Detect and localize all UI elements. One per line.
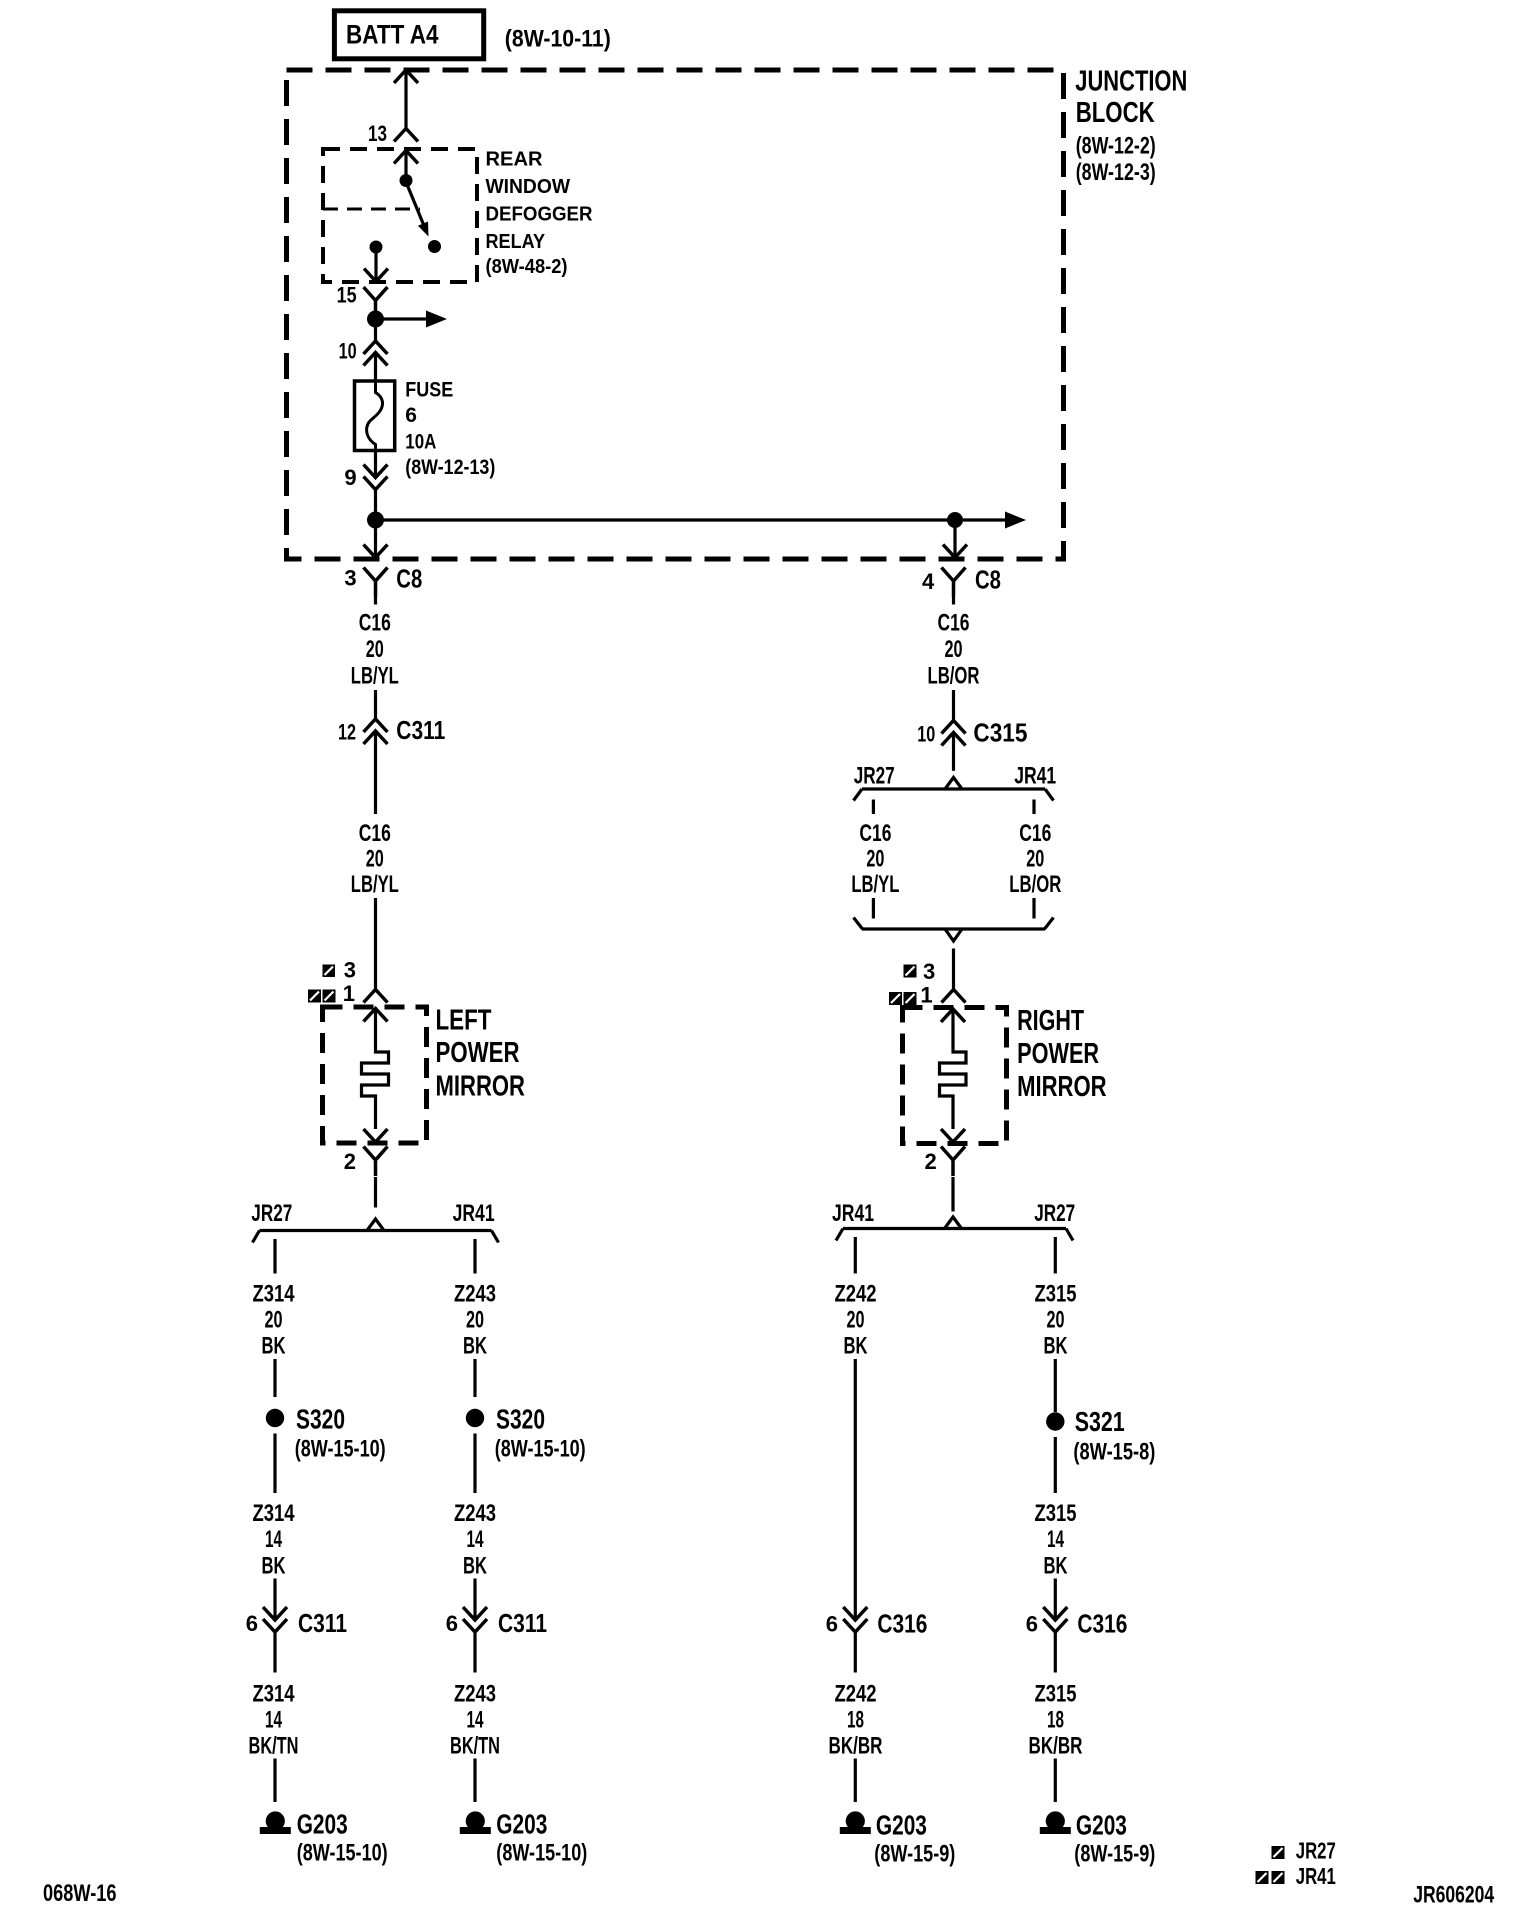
svg-text:LB/YL: LB/YL bbox=[351, 662, 399, 689]
svg-text:Z242: Z242 bbox=[835, 1281, 877, 1308]
svg-text:2: 2 bbox=[925, 1149, 937, 1174]
svg-text:BK: BK bbox=[463, 1552, 487, 1579]
svg-text:LB/YL: LB/YL bbox=[851, 871, 899, 898]
svg-text:1: 1 bbox=[920, 983, 932, 1008]
svg-text:BK: BK bbox=[463, 1333, 487, 1360]
svg-text:(8W-12-13): (8W-12-13) bbox=[405, 456, 495, 479]
svg-text:POWER: POWER bbox=[436, 1037, 520, 1069]
svg-text:POWER: POWER bbox=[1017, 1038, 1099, 1070]
svg-text:G203: G203 bbox=[297, 1809, 348, 1840]
svg-text:BK/TN: BK/TN bbox=[249, 1733, 299, 1760]
svg-text:20: 20 bbox=[945, 636, 963, 663]
svg-text:BK: BK bbox=[262, 1333, 286, 1360]
svg-text:JR41: JR41 bbox=[832, 1200, 874, 1227]
svg-text:JUNCTION: JUNCTION bbox=[1075, 66, 1187, 98]
svg-text:C311: C311 bbox=[498, 1608, 547, 1638]
svg-text:20: 20 bbox=[1026, 846, 1044, 873]
svg-text:BK/BR: BK/BR bbox=[829, 1733, 883, 1760]
svg-text:LEFT: LEFT bbox=[436, 1005, 492, 1037]
svg-text:BK: BK bbox=[1044, 1333, 1068, 1360]
svg-text:(8W-15-9): (8W-15-9) bbox=[874, 1841, 955, 1868]
svg-text:JR27: JR27 bbox=[1034, 1200, 1075, 1227]
svg-text:S321: S321 bbox=[1075, 1406, 1125, 1437]
svg-text:BK: BK bbox=[844, 1333, 868, 1360]
svg-text:C8: C8 bbox=[396, 564, 422, 594]
svg-text:Z243: Z243 bbox=[454, 1281, 496, 1308]
svg-text:20: 20 bbox=[847, 1307, 865, 1334]
svg-text:RIGHT: RIGHT bbox=[1017, 1005, 1084, 1037]
svg-text:18: 18 bbox=[847, 1707, 864, 1734]
svg-text:G203: G203 bbox=[496, 1809, 547, 1840]
svg-text:BLOCK: BLOCK bbox=[1076, 97, 1155, 129]
svg-text:(8W-15-9): (8W-15-9) bbox=[1074, 1841, 1155, 1868]
svg-text:S320: S320 bbox=[296, 1404, 345, 1435]
svg-text:JR27: JR27 bbox=[854, 763, 895, 790]
svg-text:Z315: Z315 bbox=[1035, 1281, 1077, 1308]
svg-text:20: 20 bbox=[265, 1307, 283, 1334]
svg-text:JR27: JR27 bbox=[251, 1200, 292, 1227]
svg-text:20: 20 bbox=[366, 846, 384, 873]
svg-text:C311: C311 bbox=[298, 1608, 347, 1638]
svg-text:C316: C316 bbox=[877, 1609, 927, 1639]
svg-text:C311: C311 bbox=[396, 715, 445, 745]
svg-text:LB/YL: LB/YL bbox=[351, 871, 399, 898]
svg-text:MIRROR: MIRROR bbox=[1017, 1071, 1107, 1103]
svg-text:(8W-10-11): (8W-10-11) bbox=[505, 26, 611, 53]
svg-text:6: 6 bbox=[1026, 1612, 1038, 1637]
svg-text:Z315: Z315 bbox=[1035, 1681, 1077, 1708]
svg-text:FUSE: FUSE bbox=[405, 379, 453, 402]
svg-text:MIRROR: MIRROR bbox=[436, 1071, 526, 1103]
svg-text:BK/TN: BK/TN bbox=[450, 1733, 500, 1760]
svg-text:G203: G203 bbox=[876, 1810, 927, 1841]
svg-text:Z314: Z314 bbox=[253, 1281, 296, 1308]
svg-text:20: 20 bbox=[366, 636, 384, 663]
svg-text:(8W-48-2): (8W-48-2) bbox=[486, 256, 568, 278]
svg-text:4: 4 bbox=[922, 569, 935, 594]
svg-text:20: 20 bbox=[866, 846, 884, 873]
svg-text:JR27: JR27 bbox=[1296, 1838, 1336, 1864]
svg-text:3: 3 bbox=[344, 566, 356, 591]
svg-text:6: 6 bbox=[446, 1611, 458, 1636]
svg-text:14: 14 bbox=[265, 1707, 282, 1734]
svg-text:10: 10 bbox=[917, 722, 935, 747]
svg-text:JR606204: JR606204 bbox=[1413, 1882, 1494, 1909]
svg-text:10: 10 bbox=[339, 339, 357, 364]
svg-text:Z242: Z242 bbox=[835, 1681, 877, 1708]
svg-text:BK: BK bbox=[1044, 1552, 1068, 1579]
svg-text:(8W-15-10): (8W-15-10) bbox=[295, 1436, 386, 1463]
svg-text:18: 18 bbox=[1047, 1707, 1064, 1734]
svg-text:(8W-12-3): (8W-12-3) bbox=[1076, 159, 1156, 186]
svg-text:C315: C315 bbox=[973, 718, 1027, 748]
svg-text:1: 1 bbox=[343, 981, 355, 1006]
svg-text:C316: C316 bbox=[1077, 1609, 1127, 1639]
svg-text:20: 20 bbox=[466, 1307, 484, 1334]
svg-text:BK/BR: BK/BR bbox=[1029, 1733, 1083, 1760]
svg-text:C16: C16 bbox=[359, 610, 391, 637]
svg-text:WINDOW: WINDOW bbox=[486, 176, 571, 198]
svg-text:BK: BK bbox=[262, 1552, 286, 1579]
svg-text:Z314: Z314 bbox=[253, 1681, 296, 1708]
svg-text:Z243: Z243 bbox=[454, 1681, 496, 1708]
svg-text:JR41: JR41 bbox=[453, 1200, 495, 1227]
svg-text:3: 3 bbox=[923, 959, 935, 984]
svg-text:3: 3 bbox=[344, 958, 356, 983]
svg-text:14: 14 bbox=[1047, 1526, 1064, 1553]
svg-text:(8W-15-10): (8W-15-10) bbox=[496, 1840, 587, 1867]
svg-text:Z314: Z314 bbox=[253, 1500, 296, 1527]
svg-text:LB/OR: LB/OR bbox=[928, 662, 980, 689]
svg-text:6: 6 bbox=[826, 1612, 838, 1637]
svg-text:14: 14 bbox=[265, 1526, 282, 1553]
svg-text:(8W-15-8): (8W-15-8) bbox=[1073, 1439, 1155, 1466]
svg-text:6: 6 bbox=[246, 1611, 258, 1636]
svg-text:JR41: JR41 bbox=[1296, 1863, 1336, 1889]
svg-text:(8W-12-2): (8W-12-2) bbox=[1076, 133, 1156, 160]
svg-text:BATT A4: BATT A4 bbox=[346, 20, 439, 50]
svg-text:JR41: JR41 bbox=[1014, 763, 1056, 790]
svg-text:C16: C16 bbox=[1019, 820, 1051, 847]
svg-text:DEFOGGER: DEFOGGER bbox=[486, 204, 594, 226]
svg-text:20: 20 bbox=[1047, 1307, 1065, 1334]
svg-text:068W-16: 068W-16 bbox=[43, 1880, 117, 1907]
svg-text:14: 14 bbox=[467, 1526, 484, 1553]
svg-text:(8W-15-10): (8W-15-10) bbox=[495, 1436, 586, 1463]
svg-text:C8: C8 bbox=[975, 565, 1001, 595]
svg-text:C16: C16 bbox=[938, 610, 970, 637]
svg-text:9: 9 bbox=[344, 465, 356, 490]
svg-text:(8W-15-10): (8W-15-10) bbox=[297, 1840, 388, 1867]
svg-text:10A: 10A bbox=[405, 431, 436, 454]
svg-text:6: 6 bbox=[405, 404, 417, 427]
svg-text:C16: C16 bbox=[859, 820, 891, 847]
svg-text:Z243: Z243 bbox=[454, 1500, 496, 1527]
svg-text:13: 13 bbox=[368, 121, 387, 146]
svg-text:RELAY: RELAY bbox=[486, 231, 546, 253]
svg-text:Z315: Z315 bbox=[1035, 1500, 1077, 1527]
svg-text:15: 15 bbox=[337, 283, 357, 308]
svg-text:REAR: REAR bbox=[486, 149, 544, 171]
svg-text:LB/OR: LB/OR bbox=[1009, 871, 1061, 898]
svg-text:S320: S320 bbox=[496, 1404, 545, 1435]
svg-text:2: 2 bbox=[344, 1149, 356, 1174]
svg-text:C16: C16 bbox=[359, 820, 391, 847]
svg-text:12: 12 bbox=[338, 720, 356, 745]
svg-text:G203: G203 bbox=[1076, 1810, 1127, 1841]
svg-text:14: 14 bbox=[467, 1707, 484, 1734]
